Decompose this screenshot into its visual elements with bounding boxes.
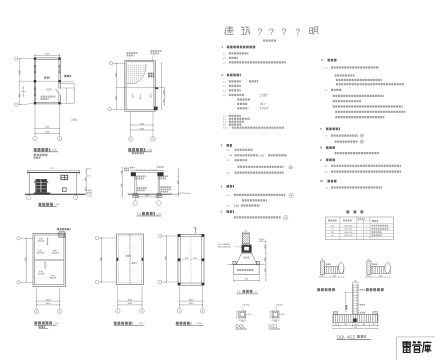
svg-text:240: 240	[362, 324, 365, 326]
svg-text:1:100: 1:100	[156, 214, 162, 216]
svg-text:4Φ12;Φ6@200: 4Φ12;Φ6@200	[218, 246, 231, 249]
svg-text:C1: C1	[331, 229, 333, 231]
svg-text:150: 150	[234, 204, 240, 208]
svg-text:240: 240	[334, 324, 337, 326]
svg-text:1: 1	[366, 229, 367, 231]
svg-text:Φ6@200: Φ6@200	[276, 304, 283, 307]
svg-text:DQL 4GZ: DQL 4GZ	[337, 334, 356, 339]
svg-text:1300: 1300	[333, 275, 337, 277]
svg-text:240: 240	[321, 259, 324, 261]
svg-text:1760: 1760	[354, 327, 358, 329]
svg-text:2: 2	[268, 107, 269, 109]
svg-text:1: 1	[366, 235, 367, 237]
svg-text:240: 240	[321, 275, 324, 277]
svg-text:?: ?	[269, 27, 274, 38]
svg-text:1300: 1300	[379, 275, 383, 277]
svg-text:1:100: 1:100	[54, 204, 60, 206]
svg-text:800: 800	[245, 279, 248, 281]
svg-text:240: 240	[344, 324, 347, 326]
svg-text:240: 240	[354, 280, 357, 282]
svg-text:1500×2100: 1500×2100	[344, 231, 353, 234]
svg-text:GZ1: GZ1	[269, 324, 278, 329]
svg-text:4Φ12: 4Φ12	[248, 313, 252, 316]
svg-text:M1: M1	[331, 225, 334, 227]
svg-text:1:100: 1:100	[147, 150, 153, 152]
svg-text:170m: 170m	[260, 107, 268, 111]
svg-text:240: 240	[354, 324, 357, 326]
svg-text:Φ6@200: Φ6@200	[243, 304, 250, 307]
svg-text:1:100: 1:100	[53, 323, 59, 325]
svg-text:1-1: 1-1	[237, 289, 241, 293]
svg-text:1:100: 1:100	[197, 323, 203, 325]
svg-text:1000×2100: 1000×2100	[344, 224, 353, 227]
svg-text:1-1: 1-1	[137, 212, 142, 216]
svg-text:3.600: 3.600	[87, 169, 91, 171]
svg-text:240: 240	[372, 324, 375, 326]
svg-text:2: 2	[267, 93, 268, 95]
svg-text:1500×2100: 1500×2100	[344, 234, 353, 237]
svg-text:?: ?	[295, 27, 300, 37]
svg-text:?: ?	[281, 27, 286, 38]
svg-text:DQL: DQL	[236, 324, 246, 329]
svg-text:±0.000: ±0.000	[87, 192, 92, 194]
svg-text:240: 240	[259, 154, 264, 158]
svg-text:M2: M2	[331, 232, 334, 234]
svg-text:1: 1	[366, 225, 367, 227]
svg-text:1:25: 1:25	[254, 291, 258, 293]
svg-text:-0.450: -0.450	[87, 196, 92, 198]
svg-text:900×1200: 900×1200	[345, 228, 353, 231]
svg-text:240: 240	[367, 275, 370, 277]
svg-text:1: 1	[197, 229, 198, 231]
svg-text:2.900: 2.900	[87, 176, 91, 178]
svg-text:1:100: 1:100	[52, 150, 58, 152]
svg-text:?: ?	[257, 27, 262, 38]
svg-text:7.200: 7.200	[49, 168, 54, 170]
svg-text:240: 240	[367, 259, 370, 261]
svg-text:36.7: 36.7	[260, 102, 266, 106]
svg-text:C2: C2	[331, 235, 333, 237]
svg-text:1: 1	[366, 232, 367, 234]
svg-text:4Φ12: 4Φ12	[281, 313, 285, 316]
